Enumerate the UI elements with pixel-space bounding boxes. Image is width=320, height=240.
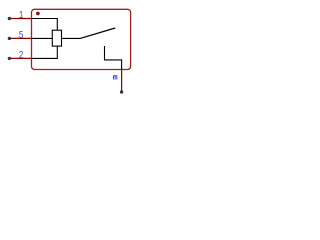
- svg-text:1: 1: [19, 9, 23, 20]
- wire from pin 2 to coil bottom: [32, 46, 58, 58]
- switch lever (movable contact): [80, 28, 115, 38]
- svg-text:2: 2: [19, 49, 23, 60]
- pin 5: [8, 37, 32, 40]
- pin 3: [120, 70, 123, 94]
- orientation dot (pin-1 marker): [36, 12, 40, 16]
- relay body outline: [32, 9, 131, 69]
- svg-text:5: 5: [19, 29, 23, 40]
- wire from pin 5 to switch common: [32, 37, 81, 39]
- pin number 3 (rotated): [113, 76, 116, 80]
- pin 1: [8, 17, 32, 20]
- relay coil: [52, 30, 61, 46]
- pin 2: [8, 57, 32, 60]
- wire from pin 1 to coil top: [32, 19, 58, 31]
- fixed contact and wire to pin 3: [105, 46, 122, 70]
